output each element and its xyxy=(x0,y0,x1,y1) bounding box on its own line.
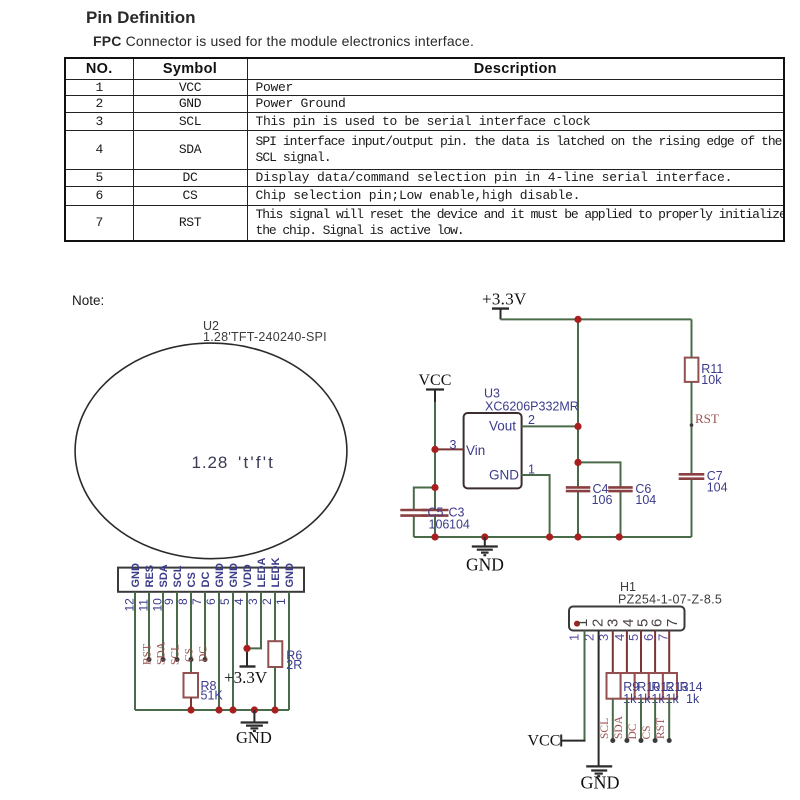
resistor R12 xyxy=(635,673,649,699)
VCC terminal tick xyxy=(560,735,562,747)
ground symbol bottom xyxy=(586,766,612,776)
svg-text:GND: GND xyxy=(284,563,296,588)
svg-text:GND: GND xyxy=(466,555,504,575)
svg-text:RES: RES xyxy=(144,565,156,588)
U2 pin name labels xyxy=(130,558,296,588)
wire R12 out xyxy=(640,699,642,740)
svg-text:106: 106 xyxy=(592,493,613,507)
svg-text:2: 2 xyxy=(528,413,535,427)
U3 pin 2 wire xyxy=(522,425,578,427)
H1 inner pin numbers xyxy=(574,619,681,627)
wire pin4 VDD to +3.3V xyxy=(246,592,248,649)
svg-text:GND: GND xyxy=(228,563,240,588)
resistor R10 xyxy=(621,673,635,699)
svg-text:1k: 1k xyxy=(637,692,651,706)
svg-text:3: 3 xyxy=(246,598,260,605)
resistor R8 xyxy=(184,673,199,710)
wire pin1 to ground bus xyxy=(288,592,290,710)
svg-text:DC: DC xyxy=(198,646,210,662)
signal wire tips H1 xyxy=(610,738,671,743)
wire R13 out xyxy=(654,699,656,740)
U3 pin 3 wire xyxy=(435,448,464,450)
ground bus right xyxy=(414,536,692,538)
svg-text:4: 4 xyxy=(612,634,627,641)
ground symbol right xyxy=(472,537,498,555)
svg-text:CS: CS xyxy=(186,572,198,587)
svg-text:U3: U3 xyxy=(484,387,500,401)
svg-text:RST: RST xyxy=(695,411,719,426)
svg-text:7: 7 xyxy=(664,619,681,627)
RST node tick xyxy=(690,423,694,427)
C5 C3 labels xyxy=(428,506,465,520)
wire pin7 DC stub xyxy=(204,592,206,659)
wire VCC down xyxy=(434,402,436,510)
svg-text:DC: DC xyxy=(627,723,639,739)
svg-text:SDA: SDA xyxy=(613,715,625,739)
svg-text:2R: 2R xyxy=(286,658,302,672)
resistor R9 xyxy=(607,673,621,699)
svg-text:'t'f't: 't'f't xyxy=(238,453,275,472)
wire C7 to bus xyxy=(691,480,693,538)
wire pin12 to ground bus xyxy=(134,592,136,710)
svg-text:SDA: SDA xyxy=(156,641,168,665)
svg-text:GND: GND xyxy=(489,468,519,483)
power +3.3V top symbol xyxy=(492,309,509,320)
svg-text:SCL: SCL xyxy=(599,718,611,739)
svg-text:5: 5 xyxy=(218,598,232,605)
svg-text:7: 7 xyxy=(190,598,204,605)
ground bus wire xyxy=(135,709,289,711)
svg-text:GND: GND xyxy=(581,773,620,793)
svg-text:104: 104 xyxy=(707,481,728,495)
wire ends tips xyxy=(147,657,208,662)
wire C5 bottom to bus xyxy=(413,516,415,537)
svg-text:1k: 1k xyxy=(666,692,680,706)
wire pin8 CS stub to R8 xyxy=(190,592,192,673)
display module U2 circle xyxy=(75,343,347,559)
svg-text:LEDK: LEDK xyxy=(270,558,282,588)
wire pin3 LEDA to +3.3V node xyxy=(247,592,261,649)
wire H1 pin2 to GND xyxy=(598,631,600,767)
svg-text:10k: 10k xyxy=(701,373,722,387)
H1 pin1 marker dot xyxy=(574,621,580,627)
svg-text:SCL: SCL xyxy=(172,565,184,587)
svg-text:GND: GND xyxy=(236,728,272,747)
svg-text:DC: DC xyxy=(200,572,212,588)
svg-text:LEDA: LEDA xyxy=(256,558,268,588)
svg-text:1k: 1k xyxy=(623,692,637,706)
svg-text:+3.3V: +3.3V xyxy=(482,290,527,309)
svg-text:51K: 51K xyxy=(201,689,224,703)
H1 outer pin numbers xyxy=(566,634,670,641)
wire H1 pin6 stub xyxy=(654,631,656,674)
U2 pin numbers xyxy=(123,598,289,612)
svg-text:1: 1 xyxy=(274,598,288,605)
note label xyxy=(72,293,104,308)
wire R11 to C7 xyxy=(691,382,693,473)
wire +3.3V rail to R11 xyxy=(501,318,692,320)
svg-text:6: 6 xyxy=(204,598,218,605)
svg-text:3: 3 xyxy=(605,619,622,627)
svg-text:104: 104 xyxy=(449,518,470,532)
wire pin5 to ground bus xyxy=(232,592,234,710)
regulator U3 body xyxy=(464,413,522,488)
U3 pin 1 wire xyxy=(522,475,550,537)
svg-text:6: 6 xyxy=(649,619,666,627)
wire R10 out xyxy=(626,699,628,740)
svg-text:SCL: SCL xyxy=(170,644,182,665)
connector U2 body xyxy=(118,568,304,592)
VCC bar symbol xyxy=(426,390,444,403)
svg-text:PZ254-1-07-Z-8.5: PZ254-1-07-Z-8.5 xyxy=(618,593,722,607)
svg-text:Vin: Vin xyxy=(466,443,485,458)
wire pin2 LEDK to R6 xyxy=(274,592,276,642)
svg-text:1: 1 xyxy=(566,634,581,641)
capacitor C5 xyxy=(400,510,427,516)
C5 C3 values xyxy=(429,518,470,532)
svg-text:+3.3V: +3.3V xyxy=(224,668,268,687)
connector H1 body xyxy=(569,607,685,631)
wire C3 bottom to bus xyxy=(434,516,436,537)
svg-text:106: 106 xyxy=(429,518,450,532)
svg-text:RST: RST xyxy=(655,718,667,739)
svg-text:Vout: Vout xyxy=(489,419,516,434)
wire 3.3V vertical to C4 xyxy=(577,319,579,487)
svg-text:1k: 1k xyxy=(651,692,665,706)
capacitor C6 xyxy=(608,487,633,491)
wire R9 out xyxy=(612,699,614,740)
svg-text:1: 1 xyxy=(528,463,535,477)
svg-text:VDD: VDD xyxy=(242,564,254,587)
wire pin9 SCL stub xyxy=(176,592,178,659)
svg-text:8: 8 xyxy=(176,598,190,605)
junction dots left bus xyxy=(187,645,278,714)
svg-text:CS: CS xyxy=(184,648,196,662)
ground symbol left xyxy=(241,710,269,731)
wire C4 bottom to bus xyxy=(577,492,579,538)
svg-text:GND: GND xyxy=(214,563,226,588)
svg-text:6: 6 xyxy=(641,634,656,641)
junction dots right xyxy=(431,316,622,541)
svg-text:VCC: VCC xyxy=(419,372,452,389)
wire C6 bottom to bus xyxy=(620,492,622,538)
wire H1 pin5 stub xyxy=(640,631,642,674)
wire pin11 RST stub xyxy=(148,592,150,659)
resistor R11 xyxy=(685,358,699,382)
svg-text:2: 2 xyxy=(260,598,274,605)
svg-text:SDA: SDA xyxy=(158,564,170,587)
wire C5 branch xyxy=(414,488,435,510)
svg-text:5: 5 xyxy=(626,634,641,641)
svg-text:CS: CS xyxy=(641,725,653,739)
svg-text:1.28'TFT-240240-SPI: 1.28'TFT-240240-SPI xyxy=(203,330,327,344)
wire H1 pin4 stub xyxy=(626,631,628,674)
capacitor C3 xyxy=(422,510,449,516)
power +3.3V left symbol xyxy=(240,648,256,666)
wire H1 pin7 stub xyxy=(668,631,670,674)
capacitor C7 xyxy=(679,474,705,478)
svg-text:9: 9 xyxy=(162,598,176,605)
wire pin6 to ground bus xyxy=(218,592,220,710)
wire C6 branch xyxy=(578,462,621,487)
svg-text:1k: 1k xyxy=(686,692,700,706)
title Pin Definition xyxy=(86,8,196,28)
wire R14 out xyxy=(668,699,670,740)
svg-text:1: 1 xyxy=(574,619,591,627)
wire H1 pin3 stub xyxy=(612,631,614,674)
pin definition table xyxy=(64,57,785,242)
wire rail to R11 xyxy=(691,319,693,357)
svg-text:4: 4 xyxy=(232,598,246,605)
svg-text:104: 104 xyxy=(635,493,656,507)
svg-text:VCC: VCC xyxy=(528,733,561,750)
resistor R6 xyxy=(268,641,282,710)
svg-text:GND: GND xyxy=(130,563,142,588)
wire pin10 SDA stub xyxy=(162,592,164,659)
capacitor C4 xyxy=(566,487,591,491)
svg-text:3: 3 xyxy=(450,438,457,452)
resistor R14 xyxy=(663,673,677,699)
svg-text:XC6206P332MR: XC6206P332MR xyxy=(485,400,579,414)
subtitle FPC connector note xyxy=(93,33,474,49)
svg-text:RST: RST xyxy=(142,644,154,665)
wire H1 pin1 to VCC xyxy=(584,631,586,741)
resistor R13 xyxy=(649,673,663,699)
svg-text:1.28: 1.28 xyxy=(192,453,229,472)
